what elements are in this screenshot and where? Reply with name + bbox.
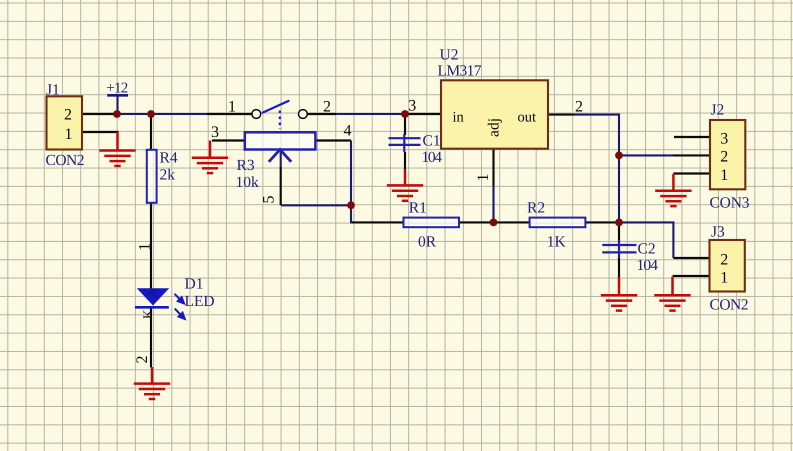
svg-text:1: 1 xyxy=(65,126,73,143)
svg-text:CON3: CON3 xyxy=(710,195,750,212)
svg-text:1K: 1K xyxy=(547,233,567,250)
svg-text:2: 2 xyxy=(575,98,583,115)
svg-text:K: K xyxy=(140,309,155,319)
svg-text:2: 2 xyxy=(720,149,728,166)
svg-text:C2: C2 xyxy=(638,241,656,258)
svg-text:1: 1 xyxy=(228,99,236,116)
svg-text:A: A xyxy=(146,288,160,297)
svg-text:3: 3 xyxy=(408,98,416,115)
svg-text:104: 104 xyxy=(422,149,443,166)
svg-text:1: 1 xyxy=(720,167,728,184)
svg-text:0R: 0R xyxy=(418,233,437,250)
svg-text:2: 2 xyxy=(323,99,331,116)
svg-text:5: 5 xyxy=(261,196,278,204)
svg-text:2: 2 xyxy=(134,356,151,364)
svg-text:in: in xyxy=(453,109,465,125)
svg-text:U2: U2 xyxy=(440,47,459,64)
svg-text:1: 1 xyxy=(475,174,492,182)
svg-text:D1: D1 xyxy=(185,276,204,293)
svg-text:1: 1 xyxy=(720,269,728,286)
svg-text:4: 4 xyxy=(344,122,352,139)
svg-text:adj: adj xyxy=(486,118,503,137)
svg-text:1: 1 xyxy=(136,243,153,251)
svg-text:J2: J2 xyxy=(711,102,725,119)
svg-text:LM317: LM317 xyxy=(438,63,482,80)
svg-text:C1: C1 xyxy=(423,133,441,150)
svg-text:+12: +12 xyxy=(106,81,128,97)
svg-text:104: 104 xyxy=(637,257,659,274)
svg-text:2: 2 xyxy=(720,251,728,268)
svg-text:out: out xyxy=(518,110,537,126)
svg-text:R2: R2 xyxy=(527,200,545,217)
svg-text:CON2: CON2 xyxy=(46,152,85,169)
svg-text:R3: R3 xyxy=(237,157,255,174)
svg-text:R1: R1 xyxy=(409,200,427,217)
svg-text:3: 3 xyxy=(720,130,728,147)
svg-text:2k: 2k xyxy=(160,167,176,184)
svg-text:3: 3 xyxy=(211,124,219,141)
svg-text:2: 2 xyxy=(64,106,72,123)
svg-text:10k: 10k xyxy=(236,174,260,191)
svg-text:J3: J3 xyxy=(711,224,725,241)
svg-text:LED: LED xyxy=(185,293,215,310)
svg-text:R4: R4 xyxy=(160,150,178,167)
svg-text:CON2: CON2 xyxy=(710,297,749,314)
svg-text:J1: J1 xyxy=(46,82,60,99)
